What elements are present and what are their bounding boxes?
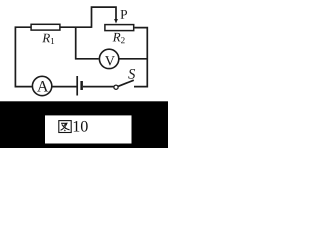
wire: voltmeter right xyxy=(119,58,147,60)
wire: R2 right + right rail + switch right xyxy=(134,28,147,87)
wire: top wire + left rail + bottom wire to ammeter xyxy=(15,27,91,86)
battery cell: short thick plate xyxy=(80,81,83,90)
wire: jog up to potentiometer wiper xyxy=(92,7,117,28)
wiper arrowhead P xyxy=(114,19,118,24)
caption text 10 xyxy=(74,121,88,132)
switch S pivot xyxy=(114,85,118,89)
switch S lever xyxy=(118,80,134,86)
label R1 xyxy=(42,34,54,44)
wire: battery to switch pivot xyxy=(83,86,114,88)
white caption box xyxy=(45,115,132,143)
label P xyxy=(120,10,127,19)
hanzi 图 (drawn) xyxy=(59,121,71,133)
potentiometer R2 xyxy=(105,25,134,31)
label R2 xyxy=(113,33,125,43)
wire: ammeter right to battery xyxy=(52,86,77,88)
label S xyxy=(128,69,135,79)
battery cell: long plate xyxy=(76,76,78,96)
wire: voltmeter left branch xyxy=(76,27,99,59)
ammeter A xyxy=(32,76,51,95)
resistor R1 xyxy=(31,24,60,30)
black caption band xyxy=(0,101,168,148)
voltmeter V xyxy=(99,49,118,68)
